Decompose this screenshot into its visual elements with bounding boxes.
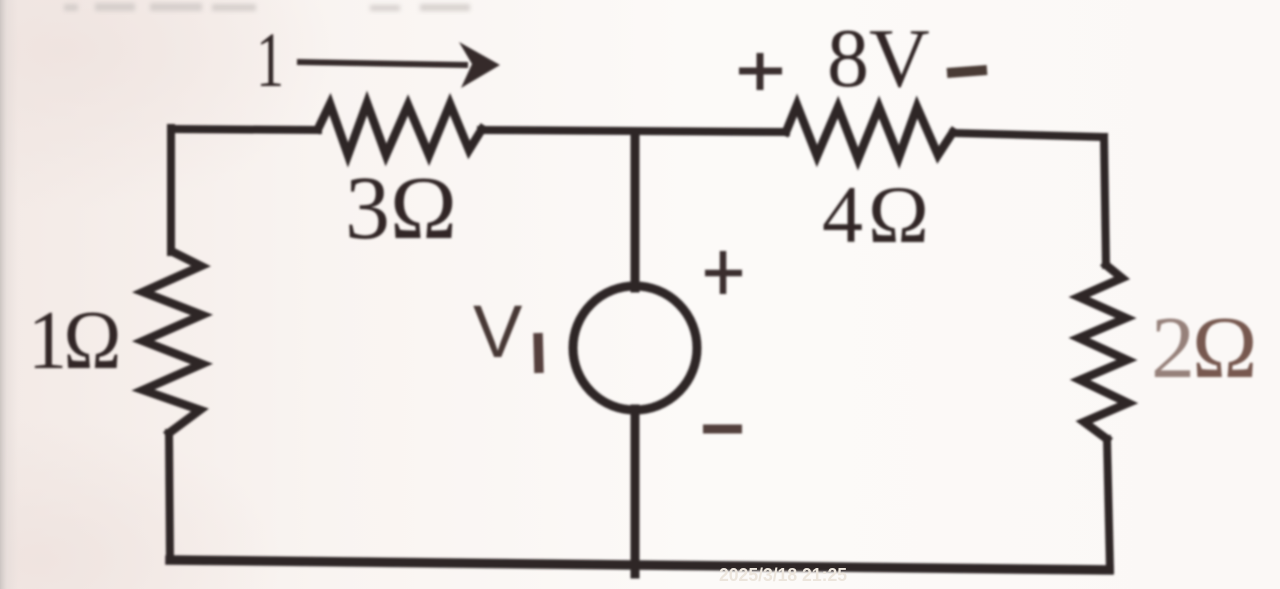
left page edge shadow: [0, 0, 18, 589]
top-left corner tint: [0, 0, 340, 210]
svg-text:1: 1: [256, 16, 284, 103]
plus of source: [705, 251, 742, 294]
plus of 8V: [739, 53, 782, 90]
current arrow: [297, 42, 500, 88]
wire top-middle segment: [481, 130, 786, 132]
svg-text:8V: 8V: [827, 12, 930, 105]
wire top-right segment: [953, 133, 1104, 137]
resistor R 1ohm zigzag: [143, 252, 202, 433]
resistor R 2ohm zigzag: [1079, 265, 1128, 439]
svg-text:2025/3/18 21:25: 2025/3/18 21:25: [719, 564, 847, 585]
label V1 subscript bar: [538, 333, 539, 373]
wire left upper: [167, 128, 175, 252]
wire top-left segment: [171, 129, 318, 130]
faint cropped text row at top: [64, 3, 470, 11]
wire middle lower from source: [631, 409, 640, 574]
svg-text:2Ω: 2Ω: [1151, 300, 1254, 397]
wire bottom: [170, 560, 1109, 570]
wire right lower: [1107, 439, 1110, 570]
svg-text:V: V: [473, 290, 523, 373]
resistor R 4ohm zigzag: [786, 105, 953, 159]
resistor R 3ohm zigzag: [318, 103, 482, 155]
svg-text:3Ω: 3Ω: [345, 159, 457, 258]
svg-text:1Ω: 1Ω: [28, 293, 118, 386]
wire middle upper to source: [631, 132, 640, 288]
wire right upper: [1104, 137, 1106, 265]
voltage source V1 circle: [573, 286, 697, 410]
wire left lower: [169, 433, 170, 560]
svg-text:4Ω: 4Ω: [822, 169, 934, 260]
bottom-left corner tint: [0, 420, 280, 589]
minus of 8V: [947, 70, 987, 73]
minus of source: [703, 425, 742, 434]
